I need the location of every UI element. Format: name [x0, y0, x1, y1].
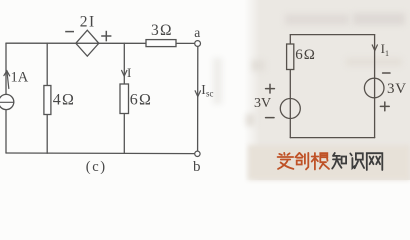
svg-text:1: 1	[385, 49, 389, 58]
svg-text:b: b	[193, 159, 201, 175]
svg-text:1A: 1A	[11, 70, 29, 86]
svg-text:3V: 3V	[387, 81, 407, 97]
svg-text:3V: 3V	[254, 96, 271, 111]
svg-text:4Ω: 4Ω	[53, 92, 75, 109]
svg-text:2I: 2I	[80, 14, 96, 31]
svg-text:(c): (c)	[86, 159, 107, 175]
svg-text:6Ω: 6Ω	[295, 47, 316, 63]
svg-text:3Ω: 3Ω	[151, 22, 173, 39]
svg-text:6Ω: 6Ω	[130, 92, 152, 109]
svg-text:I: I	[127, 65, 131, 80]
svg-text:sc: sc	[206, 88, 214, 98]
svg-text:a: a	[194, 25, 200, 40]
